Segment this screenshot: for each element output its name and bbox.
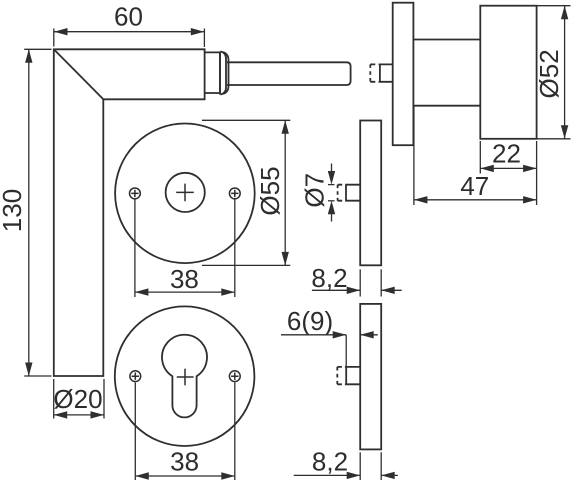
svg-text:8,2: 8,2 <box>312 447 348 477</box>
dimension 38 (upper rosette) <box>135 200 235 298</box>
dimension 8,2 (upper plate) <box>312 269 402 296</box>
lower plate screw boss <box>337 367 360 384</box>
dimension 60 (lever top) <box>54 29 205 48</box>
svg-text:8,2: 8,2 <box>311 263 347 293</box>
lever handle L-profile front view <box>54 49 205 376</box>
svg-text:38: 38 <box>170 447 199 477</box>
lower rosette crosshair <box>177 369 194 386</box>
dimension 22 (knob head depth) <box>480 141 536 205</box>
knob rose side view <box>393 3 414 146</box>
knob neck cylinder <box>413 40 480 106</box>
svg-text:38: 38 <box>170 264 199 294</box>
upper rosette left screw <box>130 188 141 199</box>
lever neck collar <box>205 52 220 93</box>
dimension Ø20 (lever bottom) <box>54 379 104 419</box>
knob head cylinder <box>480 6 536 139</box>
svg-text:47: 47 <box>460 171 489 201</box>
dimension 47 (knob total depth) <box>414 106 537 205</box>
upper rosette circle front view <box>115 124 255 264</box>
svg-text:Ø52: Ø52 <box>534 49 564 98</box>
spindle square bar <box>227 62 351 85</box>
upper rosette spindle hole <box>166 173 205 212</box>
dimension Ø55 (upper rosette) <box>202 120 290 265</box>
dimension Ø7 (upper boss) <box>328 164 335 222</box>
lower rosette left screw <box>130 371 141 382</box>
svg-text:22: 22 <box>492 139 521 169</box>
upper rosette right screw <box>229 188 240 199</box>
knob spindle stub <box>370 64 392 81</box>
svg-text:Ø20: Ø20 <box>53 384 102 414</box>
lever neck ring <box>220 51 229 94</box>
upper rosette crosshair <box>176 184 194 202</box>
svg-text:Ø7: Ø7 <box>300 173 330 208</box>
dimension 6(9) (lower boss) <box>281 335 378 367</box>
dimension 130 (lever height) <box>24 49 51 376</box>
svg-text:130: 130 <box>0 189 27 232</box>
lower rosette right screw <box>229 371 240 382</box>
dimension 38 (lower rosette) <box>135 383 235 480</box>
upper rosette side-view plate <box>360 121 381 266</box>
svg-text:60: 60 <box>114 2 143 32</box>
lower rosette PZ keyhole <box>162 335 207 418</box>
dimension 8,2 (lower plate) <box>294 452 398 480</box>
lower rosette circle front view <box>115 306 255 446</box>
dimension Ø52 (knob head) <box>537 6 571 139</box>
upper plate screw boss <box>338 185 361 201</box>
svg-text:Ø55: Ø55 <box>255 166 285 215</box>
svg-text:6(9): 6(9) <box>287 306 333 336</box>
lower rosette side-view plate <box>360 304 381 450</box>
